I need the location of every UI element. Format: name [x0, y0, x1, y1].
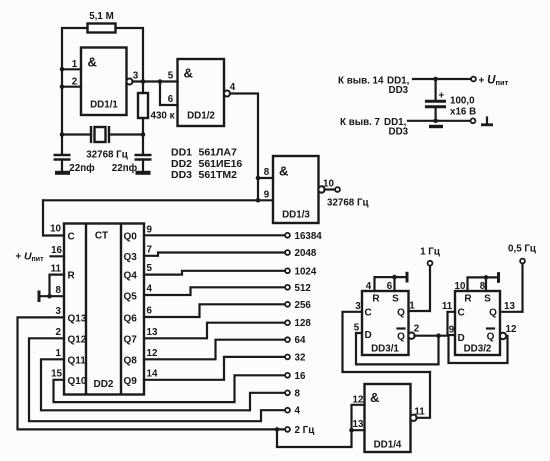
- wire DD2 pin 1 Q11 to 8 Hz: [41, 348, 285, 410]
- svg-text:9: 9: [264, 190, 270, 201]
- svg-text:C: C: [458, 308, 465, 319]
- svg-text:Q: Q: [397, 308, 405, 319]
- wire 430k to crystal node: [142, 118, 144, 155]
- svg-text:1 Гц: 1 Гц: [420, 247, 440, 258]
- wire DD2 pin 16: [51, 245, 65, 256]
- wire DD2 pin 15 Q10 to 16 Hz: [51, 368, 285, 402]
- svg-text:7: 7: [147, 244, 153, 255]
- svg-text:DD2: DD2: [171, 158, 192, 170]
- inversion bubble DD3/1 Qbar: [408, 333, 414, 339]
- svg-text:R: R: [464, 294, 472, 305]
- ground right: [136, 171, 151, 175]
- svg-text:х16 В: х16 В: [450, 107, 476, 118]
- svg-text:1: 1: [72, 59, 78, 70]
- common tick DD2 pin 8: [38, 291, 41, 303]
- terminal 0,5 Hz: [508, 244, 536, 264]
- wire DD1/4 pins 12-13 tie: [352, 405, 365, 430]
- svg-text:К выв. 14: К выв. 14: [338, 76, 384, 87]
- svg-text:13: 13: [353, 419, 364, 430]
- svg-text:Q3: Q3: [124, 252, 138, 263]
- svg-text:2 Гц: 2 Гц: [295, 425, 315, 436]
- terminal 8: [285, 388, 300, 399]
- wire DD2 pin 11 R: [50, 263, 65, 296]
- svg-text:8: 8: [480, 281, 486, 292]
- svg-text:22пф: 22пф: [112, 163, 138, 174]
- svg-text:CT: CT: [95, 231, 108, 242]
- svg-text:DD1/4: DD1/4: [374, 440, 402, 451]
- terminal common: [471, 118, 476, 123]
- svg-text:4: 4: [295, 406, 301, 417]
- ground symbol right: [481, 118, 493, 125]
- svg-text:Q9: Q9: [124, 376, 138, 387]
- node DD3/2 S tap: [484, 275, 489, 280]
- terminal 64: [285, 335, 306, 346]
- wire DD2 pin 7 Q3: [144, 244, 285, 255]
- node C3 minus tap: [433, 119, 438, 124]
- svg-text:8: 8: [295, 388, 301, 399]
- node DD1/3 pin 9 tap: [256, 198, 261, 203]
- wire DD3/1 clock pin 3: [343, 301, 431, 372]
- wire DD3/2 D pin 9 feedback: [449, 325, 508, 364]
- op-amp gate DD1/2: [178, 59, 225, 126]
- svg-text:2: 2: [56, 327, 62, 338]
- resistor R2 430 k: [138, 93, 175, 122]
- svg-text:DD3: DD3: [389, 127, 409, 138]
- wire DD3/1 Q pin 1 to 1 Hz: [409, 266, 431, 312]
- svg-text:0,5 Гц: 0,5 Гц: [508, 244, 536, 255]
- pin 12 label DD3/2: [506, 324, 517, 335]
- wire crystal left: [62, 133, 91, 135]
- node input split DD1/2: [158, 79, 163, 84]
- flip-flop DD3/2: [455, 291, 500, 355]
- svg-text:11: 11: [442, 301, 453, 312]
- svg-text:Q4: Q4: [124, 271, 138, 282]
- svg-text:100,0: 100,0: [450, 96, 475, 107]
- wire DD2 pin 5 Q4: [144, 263, 285, 274]
- terminal 32768 Hz output: [327, 187, 369, 208]
- svg-text:&: &: [370, 390, 379, 405]
- wire DD1/3 output pin 10: [323, 179, 334, 190]
- wire DD1/3 pin 8: [258, 167, 273, 178]
- svg-text:4: 4: [366, 281, 372, 292]
- node C3 plus tap: [433, 77, 438, 82]
- wire DD2 pin 4 Q5: [144, 284, 285, 295]
- label K vyv 7 DD1 DD3: [340, 117, 409, 138]
- svg-text:12: 12: [353, 394, 364, 405]
- capacitor C1 22pf left: [54, 155, 96, 174]
- svg-text:Q11: Q11: [68, 356, 87, 367]
- svg-text:10: 10: [50, 224, 61, 235]
- svg-text:2: 2: [72, 77, 78, 88]
- svg-text:430 к: 430 к: [151, 111, 175, 122]
- node output DD1/1 to 430k rail: [141, 79, 146, 84]
- svg-text:13: 13: [147, 327, 158, 338]
- svg-text:1: 1: [409, 301, 415, 312]
- svg-text:DD1/2: DD1/2: [187, 111, 215, 122]
- svg-text:C: C: [365, 308, 372, 319]
- svg-text:1: 1: [56, 348, 62, 359]
- op-amp gate DD1/1: [81, 48, 127, 116]
- wire DD2 pin 9 Q0: [144, 224, 285, 235]
- svg-text:Q13: Q13: [68, 314, 87, 325]
- op-amp gate DD1/4: [365, 384, 411, 452]
- svg-text:11: 11: [414, 407, 425, 418]
- node 2 Hz branch: [275, 427, 280, 432]
- wire DD3/2 RS rail: [455, 277, 497, 291]
- svg-text:DD3/2: DD3/2: [464, 344, 492, 355]
- wire crystal right: [109, 133, 143, 135]
- wire DD2 pin 13 Q7: [144, 323, 285, 339]
- terminal 4: [285, 406, 300, 417]
- terminal 2048: [285, 248, 317, 259]
- svg-text:DD2: DD2: [93, 379, 113, 390]
- svg-text:Q: Q: [489, 308, 497, 319]
- inversion bubble DD1/3 output: [318, 186, 324, 192]
- pin 13 label DD1/4: [353, 419, 364, 430]
- wire DD2 pin 2 Q12 to 4 Hz: [29, 327, 285, 421]
- terminal 1024: [285, 266, 317, 277]
- node crystal right: [141, 132, 146, 137]
- wire DD1/2 pin 6 branch: [160, 71, 178, 106]
- wire DD1/1 output pin 3: [133, 71, 178, 82]
- svg-text:1024: 1024: [295, 266, 317, 277]
- svg-text:+ Uпит: + Uпит: [479, 75, 509, 88]
- svg-text:Q7: Q7: [124, 335, 138, 346]
- pin 10 label DD2 C: [50, 224, 61, 235]
- terminal +Upit: [471, 75, 508, 88]
- svg-text:128: 128: [295, 318, 312, 329]
- svg-text:8: 8: [56, 285, 62, 296]
- wire power plus rail: [413, 78, 473, 80]
- wire DD1/1 pin 2: [62, 77, 81, 88]
- node DD3/1 S tap: [392, 275, 397, 280]
- svg-text:DD1/1: DD1/1: [90, 100, 118, 111]
- svg-text:5,1 М: 5,1 М: [89, 11, 114, 22]
- svg-text:&: &: [184, 66, 193, 81]
- svg-text:Q6: Q6: [124, 314, 138, 325]
- svg-text:22пф: 22пф: [69, 163, 95, 174]
- inversion bubble DD1/1 output: [127, 79, 133, 85]
- svg-text:&: &: [88, 55, 97, 70]
- wire power minus rail: [408, 120, 472, 122]
- node DD1/3 pin 8 tap: [256, 176, 261, 181]
- inversion bubble DD1/4 output: [410, 415, 416, 421]
- svg-text:256: 256: [295, 300, 312, 311]
- svg-text:8: 8: [264, 167, 270, 178]
- svg-text:Q10: Q10: [68, 376, 87, 387]
- wire DD1/4 output pin 11: [414, 372, 430, 418]
- svg-text:S: S: [484, 294, 491, 305]
- svg-text:&: &: [279, 164, 288, 179]
- svg-text:C: C: [68, 232, 75, 243]
- wire feedback top right: [116, 28, 144, 93]
- svg-text:12: 12: [506, 324, 517, 335]
- wire DD3/2 Q pin 13 to 0,5 Hz: [500, 264, 523, 313]
- svg-text:64: 64: [295, 335, 306, 346]
- svg-text:6: 6: [168, 94, 174, 105]
- svg-text:DD3: DD3: [171, 169, 192, 181]
- terminal 16: [285, 371, 306, 382]
- terminal 16384: [285, 231, 322, 242]
- svg-text:561ТМ2: 561ТМ2: [199, 169, 238, 181]
- common tick DD3/1: [406, 272, 409, 283]
- svg-text:Q0: Q0: [124, 232, 138, 243]
- terminal 1 Hz: [420, 247, 440, 266]
- svg-text:6: 6: [147, 306, 153, 317]
- resistor R1 5,1 M: [88, 11, 116, 33]
- svg-text:+ Uпит: + Uпит: [16, 251, 45, 264]
- node pin2 tap: [60, 84, 65, 89]
- terminal 256: [285, 300, 311, 311]
- wire DD1/2 output pin 4: [230, 82, 258, 200]
- svg-text:R: R: [372, 294, 380, 305]
- svg-text:9: 9: [147, 224, 153, 235]
- terminal 128: [285, 318, 311, 329]
- svg-text:10: 10: [323, 179, 334, 190]
- svg-text:2048: 2048: [295, 248, 317, 259]
- capacitor C2 22pf right: [112, 155, 152, 174]
- svg-text:512: 512: [295, 283, 312, 294]
- wire feedback top left: [62, 28, 88, 155]
- svg-text:DD3: DD3: [389, 85, 409, 96]
- wire DD2 pin 3 Q13 to 2 Hz: [18, 306, 286, 429]
- terminal 32: [285, 352, 306, 363]
- svg-text:16384: 16384: [295, 231, 323, 242]
- wire DD2 pin 14 Q9: [144, 357, 285, 380]
- svg-text:3: 3: [56, 306, 62, 317]
- node DD3/1 Qbar feedback tap: [436, 333, 441, 338]
- inversion bubble DD1/2 output: [224, 91, 230, 97]
- op-amp gate DD1/3: [273, 156, 319, 223]
- wire DD1/3 pin 9 to DD2 clock: [43, 190, 273, 236]
- svg-text:+: +: [439, 91, 445, 102]
- svg-text:D: D: [365, 330, 372, 341]
- wire DD1/1 pin 1: [62, 59, 81, 70]
- svg-text:Q5: Q5: [124, 292, 138, 303]
- svg-text:5: 5: [168, 71, 174, 82]
- ground bar under C3: [429, 125, 443, 128]
- node crystal left: [60, 132, 65, 137]
- svg-text:561ЛА7: 561ЛА7: [199, 147, 237, 159]
- svg-text:6: 6: [387, 281, 393, 292]
- svg-text:DD1/3: DD1/3: [282, 210, 310, 221]
- svg-text:DD3/1: DD3/1: [371, 344, 399, 355]
- capacitor C3 100,0 x16V electrolytic: [425, 79, 476, 121]
- terminal 2 Hz: [285, 425, 314, 436]
- svg-text:К выв. 7: К выв. 7: [340, 117, 381, 128]
- svg-text:5: 5: [147, 263, 153, 274]
- svg-text:3: 3: [355, 301, 361, 312]
- svg-text:2: 2: [414, 324, 420, 335]
- svg-text:5: 5: [354, 323, 360, 334]
- ground left: [55, 171, 70, 175]
- svg-text:Q12: Q12: [68, 335, 87, 346]
- svg-text:32768 Гц: 32768 Гц: [86, 150, 128, 161]
- node pin1 tap: [60, 67, 65, 72]
- inversion bubble DD3/2 Qbar: [500, 333, 506, 339]
- node DD1/4 pin 13: [349, 428, 354, 433]
- svg-text:3: 3: [133, 71, 139, 82]
- flip-flop DD3/1: [362, 291, 409, 355]
- wire DD3/1 RS rail: [366, 277, 405, 292]
- svg-text:DD1: DD1: [171, 147, 192, 159]
- svg-text:32768 Гц: 32768 Гц: [327, 198, 369, 209]
- svg-text:16: 16: [51, 245, 62, 256]
- wire DD2 pin 6 Q6: [144, 304, 285, 317]
- wire DD2 pin 12 Q8: [144, 340, 285, 360]
- svg-text:10: 10: [455, 281, 466, 292]
- svg-text:4: 4: [230, 82, 236, 93]
- wire 2 Hz dip to DD1/4 inputs: [277, 429, 352, 447]
- svg-text:15: 15: [51, 368, 62, 379]
- svg-text:Q: Q: [487, 332, 495, 343]
- svg-text:11: 11: [51, 263, 62, 274]
- crystal ZQ1 32768 Hz: [86, 126, 128, 161]
- svg-text:D: D: [458, 333, 465, 344]
- svg-text:16: 16: [295, 371, 306, 382]
- svg-text:Q: Q: [397, 332, 405, 343]
- svg-text:14: 14: [147, 368, 158, 379]
- pin 12 label DD1/4: [353, 394, 364, 405]
- svg-text:12: 12: [147, 348, 158, 359]
- wire DD2 pin 8: [40, 285, 64, 296]
- svg-text:561ИЕ16: 561ИЕ16: [199, 158, 243, 170]
- svg-text:4: 4: [147, 284, 153, 295]
- wire DD3/1 D pin 5 feedback: [354, 323, 439, 365]
- svg-text:13: 13: [504, 301, 515, 312]
- terminal 512: [285, 283, 311, 294]
- label K vyv 14 DD1 DD3: [338, 76, 410, 97]
- svg-text:R: R: [68, 271, 76, 282]
- common tick DD3/2: [497, 272, 500, 283]
- svg-text:32: 32: [295, 352, 306, 363]
- parts list DD1 DD2 DD3: [171, 147, 242, 182]
- label +Upit pin16: [16, 251, 45, 264]
- svg-text:Q8: Q8: [124, 356, 138, 367]
- counter DD2 box: [64, 224, 144, 395]
- wire DD3/1 Qbar pin 2 to DD3/2 clock pin 11: [414, 301, 455, 336]
- node pins 11-8 join: [47, 294, 52, 299]
- svg-text:S: S: [392, 294, 399, 305]
